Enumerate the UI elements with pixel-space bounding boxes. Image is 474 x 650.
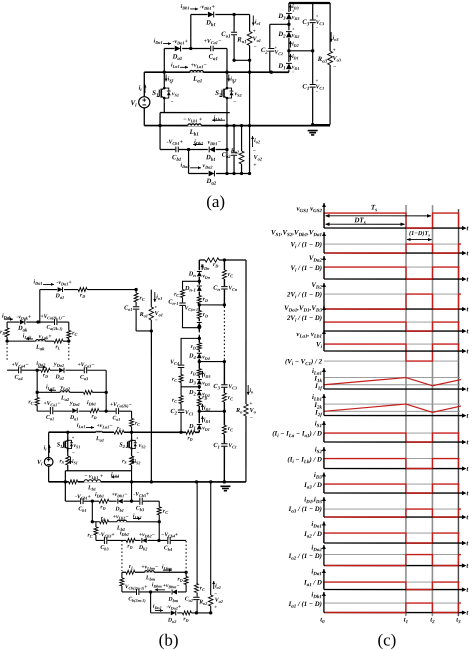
waveform vGS (high during D) [324, 213, 459, 228]
svg-text:Ca1: Ca1 [112, 415, 120, 421]
waveform iDo1 (high during D) [406, 532, 432, 534]
wire bout1 bottom [136, 330, 151, 332]
grid line t3 [457, 209, 459, 616]
current arrow iDn [201, 264, 203, 270]
current arrow iLa1 [180, 66, 188, 68]
resistor rL b1 [69, 479, 78, 484]
capacitor Cb2m-1 [136, 588, 140, 595]
axis row7 iLa1 [324, 388, 462, 390]
svg-text:Co1: Co1 [124, 305, 132, 311]
wire b1 up [131, 471, 133, 501]
resistor rL a2 [83, 390, 92, 395]
node k2l [5, 339, 8, 342]
waveform iD3 (high during D) [406, 483, 433, 485]
svg-text:Da1: Da1 [69, 415, 78, 421]
wire row3 drop [131, 411, 133, 432]
wire cell2 left drop [36, 392, 38, 411]
svg-text:Ca(2k-1): Ca(2k-1) [46, 325, 63, 331]
waveform VDo1 VD1 VD3 (high during D) [406, 321, 433, 323]
wire D4-Cstring tap [199, 361, 224, 363]
waveform iS1 (high during D) [406, 432, 433, 434]
node out1 bottom [232, 59, 235, 62]
wire cell2 right [105, 370, 107, 392]
capacitor bCo1 [132, 306, 139, 310]
wire source tie [160, 112, 230, 114]
node Db1 tap [189, 47, 192, 50]
svg-text:rS: rS [122, 458, 127, 464]
resistor brD1 [78, 287, 87, 292]
svg-text:(c): (c) [377, 631, 396, 650]
node Cstring D4 tap [223, 360, 226, 363]
node b2 r [158, 520, 161, 523]
svg-text:vD3: vD3 [202, 380, 210, 386]
diode Da1 [174, 45, 182, 52]
wire bottom rail [144, 125, 330, 127]
svg-text:VC1: VC1 [185, 410, 194, 416]
inductor La2 [60, 390, 70, 393]
current arrow iLak [26, 338, 33, 340]
capacitor Cb3 b [139, 497, 143, 505]
resistor rC k [66, 330, 71, 338]
svg-text:-VCb1+: -VCb1+ [75, 494, 91, 500]
node cellk [36, 320, 39, 323]
node bout1 bb [150, 329, 153, 332]
node stack-mid [248, 71, 251, 74]
svg-text:+: + [316, 78, 319, 83]
wire bS1 [67, 432, 69, 471]
svg-text:-VCb3+: -VCb3+ [99, 532, 115, 538]
svg-text:Co2: Co2 [185, 596, 194, 602]
svg-text:iD1: iD1 [204, 417, 211, 423]
waveform VS1 VS2 VDb1 VDa1 (high during 1-D) [324, 243, 406, 245]
svg-text:rC: rC [72, 330, 77, 336]
svg-text:Db2: Db2 [138, 545, 148, 551]
diode D3b [196, 378, 202, 385]
svg-text:+: + [253, 29, 256, 35]
svg-text:rC: rC [174, 291, 179, 297]
svg-text:Cb3: Cb3 [100, 545, 109, 551]
capacitor Cn-1 [179, 302, 186, 306]
svg-text:rL: rL [55, 344, 60, 350]
waveform iD1 iD3 (high during 1-D) [324, 508, 406, 510]
resistor rC c2 [179, 396, 184, 404]
node branchC rail [225, 124, 228, 127]
resistor bRo1 [149, 307, 154, 320]
diode D3 [286, 12, 293, 20]
svg-text:Ca3: Ca3 [80, 375, 89, 381]
wire b C-string upper [223, 260, 225, 307]
diode D1 [285, 62, 292, 70]
wire bm row1 [122, 571, 186, 573]
capacitor Cn [221, 286, 228, 290]
svg-text:+: + [333, 48, 336, 54]
wire branchD stub [188, 149, 190, 173]
capacitor C3b [221, 384, 228, 388]
node C2b mid [179, 431, 182, 434]
wire branchC [160, 148, 227, 150]
current arrow iD2 [289, 41, 291, 48]
svg-text:VC1: VC1 [228, 443, 237, 449]
resistor rL b2 [100, 519, 109, 524]
wire b C-string lower [223, 362, 225, 482]
svg-text:VC(n-1): VC(n-1) [185, 305, 201, 311]
node chain dotted end [198, 337, 201, 340]
axis row2 VS [324, 252, 462, 254]
inductor Lb1 [188, 123, 202, 126]
capacitor C2 [268, 48, 275, 52]
wire cell2 row1 [7, 369, 106, 371]
wire dotted right [68, 343, 70, 361]
wire bCo2 vert [196, 482, 198, 614]
wire cellk row2 [7, 340, 69, 342]
diode chain mid [196, 321, 202, 328]
svg-text:−VCb4+: −VCb4+ [161, 532, 178, 538]
svg-text:rD: rD [203, 296, 208, 302]
annotation (1-D)Ts arrow [407, 239, 432, 241]
wire bm row2 [122, 591, 186, 593]
wire bm right [185, 572, 187, 592]
svg-text:iS1: iS1 [72, 459, 78, 465]
node source-rail [158, 124, 161, 127]
svg-text:-vDo2+: -vDo2+ [166, 604, 181, 610]
axis row iD3 [324, 492, 462, 494]
svg-text:−: − [171, 100, 174, 105]
svg-text:−: − [233, 100, 236, 105]
svg-text:+vDb1−: +vDb1− [111, 492, 128, 498]
svg-text:Ro1: Ro1 [139, 312, 148, 318]
svg-text:+: + [292, 27, 295, 32]
svg-text:rC: rC [140, 295, 145, 301]
wire chain-Cn tap [199, 304, 224, 306]
svg-text:iD3: iD3 [204, 372, 211, 378]
wire Ca1 down [226, 48, 228, 72]
current arrow iLb2 [133, 518, 141, 520]
capacitor Cb4 [167, 536, 171, 544]
svg-text:-VCb3+: -VCb3+ [133, 492, 149, 498]
node chain D2-D3b [198, 385, 201, 388]
diode Dbm [171, 589, 178, 595]
svg-text:iDbm: iDbm [152, 582, 162, 588]
svg-text:rD: rD [43, 373, 48, 379]
resistor rC row3drop [129, 418, 134, 426]
current arrow iD1b [201, 416, 203, 423]
svg-text:+VCa(2k)−: +VCa(2k)− [110, 402, 133, 408]
resistor rD chain2 [197, 310, 202, 318]
svg-text:rC: rC [228, 272, 233, 278]
capacitor Cb1 b [80, 498, 84, 505]
node gnd [311, 123, 314, 126]
wire Vi top lead [143, 72, 145, 97]
wire branchD [189, 172, 250, 174]
current arrow ii [144, 84, 146, 93]
wire C-string [312, 3, 314, 125]
svg-text:−: − [333, 65, 336, 71]
node row3 junction [105, 410, 108, 413]
axis row iD1 iD3 [324, 516, 462, 518]
wire S1 drain [163, 72, 165, 84]
svg-text:VC3: VC3 [228, 384, 237, 390]
svg-text:vDn: vDn [202, 273, 210, 279]
resistor rD bm [184, 576, 189, 584]
node Dn bottom [198, 280, 201, 283]
capacitor C3 [309, 19, 316, 23]
current arrow biS1 [69, 457, 71, 464]
waveform iDo2 (high during 1-D) [324, 554, 406, 556]
inductor La1 b [96, 431, 103, 433]
svg-text:iS2: iS2 [135, 459, 141, 465]
svg-text:+vLb2−: +vLb2− [113, 514, 129, 520]
wire Db1 branch [191, 13, 234, 15]
svg-text:+VCa3−: +VCa3− [77, 362, 95, 368]
wire b diode chain dotted [198, 331, 200, 336]
axis row iDo2 [324, 565, 462, 567]
svg-text:+vDb2−: +vDb2− [139, 532, 156, 538]
resistor rD chain2b [197, 343, 202, 350]
axis row6 vLa1 [324, 350, 462, 352]
wire dotted left [6, 343, 8, 361]
capacitor Ca1b [50, 407, 54, 415]
diode bDa1 [57, 287, 64, 293]
wire S2 lower drop [226, 113, 228, 174]
node rail 210.8 [209, 480, 212, 483]
svg-text:vS2: vS2 [235, 91, 243, 97]
node bo2 b [209, 611, 212, 614]
wire row3 [37, 410, 131, 412]
axis row iDb1 [324, 612, 462, 614]
node Ro2 top [240, 124, 243, 127]
node out1-b [248, 59, 251, 62]
resistor rD row3 [90, 408, 99, 413]
capacitor Cak [54, 319, 58, 326]
ground b [220, 486, 230, 490]
svg-text:Cn-1: Cn-1 [168, 299, 178, 305]
node rail 196.5 [195, 480, 198, 483]
svg-text:+: + [316, 14, 319, 19]
node C-string mid [311, 49, 314, 52]
axis row8 iLb1 [324, 415, 462, 417]
current arrow io3 [330, 32, 332, 42]
wire branchC left [159, 126, 161, 150]
svg-text:rS: rS [59, 458, 64, 464]
node Cn tap [223, 303, 226, 306]
waveform iDb1 (high during 1-D) [324, 602, 406, 604]
svg-text:rD: rD [127, 543, 132, 549]
node branchC right [225, 148, 228, 151]
wire bDa1 drop [39, 290, 41, 324]
capacitor Cb3 r3 [104, 536, 108, 544]
resistor rC cs3 [222, 425, 227, 434]
wire S2 source [226, 102, 228, 113]
node chain n [198, 303, 201, 306]
svg-text:+vDbm−: +vDbm− [163, 583, 180, 589]
inductor Lb2 [117, 520, 127, 523]
wire b top [199, 259, 246, 261]
svg-text:-vDak+: -vDak+ [17, 314, 32, 320]
svg-text:iD3: iD3 [292, 4, 299, 10]
resistor rD b1 [99, 499, 109, 504]
wire b source tie [65, 470, 131, 472]
node b3 mid [157, 539, 160, 542]
wire b dotted r [185, 541, 187, 569]
resistor rD a2 [41, 368, 50, 373]
svg-text:rD: rD [80, 292, 85, 298]
resistor rD o2 [182, 610, 191, 615]
resistor Ro3 [327, 51, 333, 65]
current arrow ii b [48, 445, 50, 453]
svg-text:−: − [250, 417, 253, 422]
svg-text:+vLbm−: +vLbm− [141, 564, 158, 570]
node b2 l [91, 520, 94, 523]
diode Db1 [208, 11, 216, 18]
wire bRo2 vert [210, 482, 212, 614]
svg-text:VC2: VC2 [274, 50, 283, 56]
svg-text:Da1: Da1 [55, 293, 65, 299]
wire main mid rail [144, 71, 289, 73]
capacitor C1 [309, 84, 316, 88]
current arrow iDb1 [190, 8, 198, 10]
resistor rS2 [129, 456, 134, 465]
node S1 drain [163, 71, 166, 74]
wire cellk right [68, 322, 70, 341]
wire Co2 [233, 126, 235, 174]
svg-text:-VCb1+: -VCb1+ [167, 139, 184, 145]
voltage source Vi b [44, 458, 53, 467]
axis row4 VD2 [324, 308, 462, 310]
svg-text:(a): (a) [206, 192, 225, 211]
wire b2 left [91, 501, 93, 522]
waveform iDa1 (high during D) [406, 581, 433, 583]
waveform iLb1 (triangle) [324, 403, 460, 405]
inductor Lak [36, 339, 46, 342]
node D1-D2 [287, 49, 290, 52]
svg-text:vLak+: vLak+ [39, 334, 53, 340]
resistor Ro2 b [208, 595, 213, 606]
wire chain-C1 tap [199, 410, 224, 412]
current arrow iD1 [289, 54, 291, 61]
diode Da1b [72, 408, 79, 414]
wire Ro1 branch [249, 15, 251, 61]
wire load rail [329, 3, 331, 125]
current arrow iS1 [165, 74, 167, 81]
wire b diode chain lower [198, 336, 200, 432]
node D2-D3 [287, 23, 290, 26]
axis row iDo1 [324, 542, 462, 544]
grid line t2 [431, 205, 433, 616]
wire b1 right [158, 501, 160, 540]
node cell2 a [36, 369, 39, 372]
svg-text:vD4: vD4 [202, 354, 210, 360]
capacitor C1b [221, 443, 228, 447]
resistor rS1 [65, 456, 70, 465]
wire out bottom rail [313, 124, 330, 126]
svg-text:rD: rD [203, 312, 208, 318]
wire b1 row [65, 500, 159, 502]
capacitor Ca1 [210, 45, 214, 52]
diode Da2 [208, 170, 216, 177]
inductor La1 [190, 70, 204, 73]
svg-text:rD: rD [0, 329, 5, 335]
current arrow iLa2 [49, 389, 56, 391]
current arrow iDak [4, 318, 13, 320]
current arrow bio1 [154, 292, 156, 302]
wire Vi bottom lead [143, 108, 145, 126]
node rail 224.4 [223, 480, 226, 483]
wire out1 top [234, 13, 250, 15]
axis row5 VDo1 [324, 330, 462, 332]
wire C4-C2 branch [181, 338, 199, 432]
waveform iS2 (high during D) [406, 458, 433, 460]
resistor rC n-1 [180, 289, 185, 297]
svg-text:Ca1: Ca1 [46, 415, 54, 421]
resistor rC o2 [194, 583, 199, 592]
current arrow iDb1b [193, 144, 203, 146]
transistor bS2 [126, 437, 137, 452]
svg-text:rD: rD [183, 616, 188, 622]
resistor rL mid [114, 430, 124, 435]
capacitor Co2 [231, 152, 238, 156]
ground [308, 131, 318, 135]
svg-text:rC: rC [88, 532, 93, 538]
node out1 top [232, 13, 235, 16]
resistor rD chain3 [197, 369, 202, 376]
svg-text:La1: La1 [95, 436, 104, 442]
svg-text:rC: rC [172, 397, 177, 403]
svg-text:vDa2: vDa2 [203, 163, 214, 169]
svg-text:La2: La2 [60, 396, 70, 402]
svg-text:io2: io2 [215, 583, 221, 589]
transistor S2 [220, 84, 233, 102]
svg-text:rC: rC [135, 420, 140, 426]
wire bout1 right [150, 290, 152, 331]
current arrow iDbm [155, 589, 165, 591]
node branchD S2 [225, 172, 228, 175]
svg-text:+VCa4−: +VCa4− [11, 362, 29, 368]
axis row1 vGS [324, 227, 462, 229]
wire Co1 [233, 14, 235, 60]
wire Ro2 [241, 126, 243, 174]
node b1 b [130, 500, 133, 503]
wire cell2 row2 [37, 391, 106, 393]
resistor rC b1 [157, 507, 162, 515]
node c22r [105, 391, 108, 394]
wire cellk row1 [7, 321, 69, 323]
current arrow biS2 [132, 457, 134, 464]
svg-text:− vLb1 +: − vLb1 + [84, 474, 104, 480]
wire b bottom row [151, 612, 211, 614]
svg-text:+vLa1−: +vLa1− [96, 423, 113, 429]
wire Cn-1 branch [182, 281, 199, 327]
svg-text:+VCa1−: +VCa1− [43, 401, 61, 407]
node bS2 drain [130, 431, 133, 434]
capacitor Ca3 [84, 367, 88, 374]
current arrow iLb1 [212, 119, 225, 121]
wire b2 row [92, 521, 159, 523]
diode Dn-1 [196, 285, 202, 292]
diode D1b [196, 423, 202, 430]
axis row iS1 [324, 441, 462, 443]
capacitor Co1 [231, 32, 238, 36]
svg-text:iD2: iD2 [292, 42, 299, 48]
node bo2 a [195, 611, 198, 614]
svg-text:rL: rL [101, 515, 106, 521]
resistor rD b3 [126, 538, 135, 543]
wire b dotted l [121, 540, 123, 571]
resistor rD mid [186, 430, 195, 435]
wire b rail [49, 481, 246, 483]
svg-text:rD: rD [187, 435, 192, 441]
resistor rD chain1 [197, 295, 202, 303]
svg-text:−: − [254, 45, 257, 51]
